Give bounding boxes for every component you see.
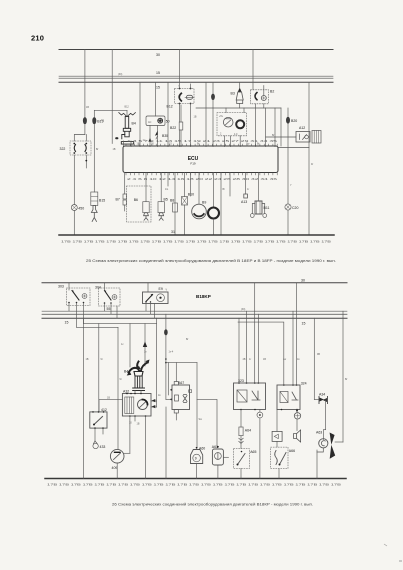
ignition switch 304 (dashed) [99,288,121,306]
svg-text:1B: 1B [86,358,89,361]
diode box [276,410,278,432]
svg-text:1B: 1B [137,423,140,426]
svg-text:B12: B12 [167,105,173,109]
svg-text:412: 412 [101,408,107,412]
wire B4 to A32 [134,391,136,394]
control unit A67 [172,385,190,410]
svg-text:C20: C20 [292,206,298,210]
wires gauges [224,136,226,147]
svg-text:A12: A12 [299,126,305,130]
svg-text:15: 15 [65,321,69,325]
wire 412 top to module A32 [99,399,122,401]
starter switch E9 [143,292,169,304]
connector A13 [245,173,247,195]
connector (hatched) at A12 [312,131,321,144]
svg-text:1v-4: 1v-4 [169,351,174,354]
svg-text:(30): (30) [241,308,245,311]
svg-text:9r: 9r [311,163,313,166]
wire to A67 top [175,363,177,382]
ECU pin ticks top [126,144,277,175]
svg-text:A13: A13 [241,200,247,204]
svg-text:322: 322 [60,147,66,151]
relay box 324 [277,385,300,410]
svg-text:A32: A32 [123,389,129,393]
svg-text:1r: 1r [249,358,251,361]
svg-text:A64: A64 [245,429,251,433]
svg-text:1 3 5 7 9 11 13 15 17 19 21 23: 1 3 5 7 9 11 13 15 17 19 21 23 25 27 29 … [127,140,279,143]
connector 450 [71,205,77,211]
svg-text:15: 15 [302,322,306,326]
svg-text:A61: A61 [212,445,218,449]
lambda sensor B9 [198,173,200,205]
relay box 323 [234,383,266,410]
svg-text:B20: B20 [291,119,297,123]
svg-text:26 Схема электрических соедине: 26 Схема электрических соединений электр… [112,503,313,507]
AC switch unit 50 [146,116,165,126]
wire B12 outputs to ECU [179,104,181,123]
svg-text:1B: 1B [107,397,110,400]
svg-text:B4: B4 [132,122,136,126]
wire stubs coil B4 to ECU [123,141,125,147]
svg-text:B35: B35 [162,134,168,138]
sensor 331 [296,410,298,413]
svg-text:1B: 1B [263,358,266,361]
connector C20 [285,204,291,210]
svg-text:1r: 1r [247,188,249,191]
sensor B10 [184,173,186,197]
wire 412 to lamp 433 [94,428,96,441]
svg-text:210: 210 [31,34,44,43]
svg-text:Br: Br [96,148,99,151]
svg-text:B18KP: B18KP [196,294,211,299]
svg-text:A60: A60 [199,446,205,450]
dashed enclosure around B6 [127,186,152,222]
wire to ignition switch 412 [98,324,100,412]
wire from bus30 [111,50,113,144]
svg-text:A34: A34 [319,392,325,396]
gauge 409 [110,449,124,463]
wire to gauge 409 [117,327,119,449]
bus 15 double line [59,75,333,77]
fuse B20 [287,108,289,117]
sensor B8 [174,173,176,204]
ground bus [45,478,346,480]
wire harness left horizontals [84,323,157,325]
svg-text:17B 17B 17B 17B 17B 17B 17B 17: 17B 17B 17B 17B 17B 17B 17B 17B 17B 17B … [47,484,342,487]
wire 322 to connector 450 [73,155,75,204]
svg-text:9r: 9r [120,378,122,381]
svg-text:4B: 4B [243,358,246,361]
wire B19 branch [93,110,95,117]
stray scan marks [384,544,387,546]
svg-text:450: 450 [78,207,84,211]
wire feed jog into 322 [74,135,86,142]
svg-text:B4: B4 [124,370,128,374]
svg-text:B12: B12 [125,106,130,109]
svg-text:324: 324 [301,382,307,386]
wire ECU to A12 [278,147,309,149]
svg-text:30: 30 [301,279,305,283]
wire E9 feeds [147,283,149,292]
instrument cluster dashed box [217,113,247,136]
relay B2 (dashed box) [251,90,269,104]
switch box 322 (dashed) [70,141,91,155]
svg-text:B5: B5 [164,198,168,202]
wire A67 bottom stub [175,413,177,420]
svg-text:B11: B11 [264,206,270,210]
sensor B7 [124,173,126,195]
svg-text:Br: Br [272,134,275,137]
svg-text:9r: 9r [101,358,103,361]
svg-text:B10: B10 [188,193,194,197]
svg-text:303: 303 [58,285,64,289]
svg-text:AC: AC [148,121,152,124]
svg-text:Sw: Sw [199,418,203,421]
fuse B1 [212,82,214,93]
svg-text:31: 31 [171,230,175,234]
wire 324 feeds [238,322,284,385]
injector B15 [91,192,98,206]
svg-text:30: 30 [156,53,160,57]
switch A66 (dashed) [271,447,288,469]
resistor A64 [240,410,242,428]
svg-text:25 Схема электрических соедине: 25 Схема электрических соединений электр… [86,259,336,263]
ECU U1 [123,146,278,173]
horn A60 [196,447,198,449]
wire left rail from bus30 [84,50,86,118]
svg-text:1B: 1B [194,116,197,119]
wire 322 stub [85,155,87,168]
svg-text:15: 15 [156,86,160,90]
resistor B22 [180,105,182,122]
wire bus30 to B12 [179,50,181,89]
svg-text:B9: B9 [202,201,206,205]
svg-text:F19: F19 [190,161,196,165]
wire horizontal feed [94,109,127,111]
wire long rail right [308,82,310,235]
idle valve B11 [258,173,260,202]
svg-text:A63: A63 [316,431,322,435]
ECU pin ticks bottom [126,173,277,176]
wire 323 feeds [238,318,240,383]
svg-text:17B 17B 17B 17B 17B 17B 17B 17: 17B 17B 17B 17B 17B 17B 17B 17B 17B 17B … [61,241,332,244]
svg-text:B3: B3 [231,92,235,96]
svg-text:50: 50 [166,120,170,124]
gauge right (dark ring) [236,120,244,128]
sensor (dark ring) [213,173,215,208]
bus 30 (top supply rail) [59,49,333,51]
wire B19 to injector B15 [93,125,95,193]
wire ECU ground runs [167,173,169,187]
wires bus to ECU pins [139,82,141,146]
svg-text:A67: A67 [178,381,184,385]
lamp 433 [93,441,97,444]
svg-text:E9: E9 [159,287,163,291]
ignition switch 303 (dashed) [67,288,91,306]
fuse F (left) [83,117,87,124]
wire unit 50 outputs [149,126,151,147]
svg-text:Br: Br [223,188,226,191]
connector under 323 [259,410,261,413]
wire long rail [83,318,85,478]
svg-text:1B: 1B [113,148,116,151]
arrow B35 [155,131,158,136]
wire with fuse to A67 [165,314,167,329]
gauge left [223,117,233,127]
svg-text:B2: B2 [270,90,274,94]
wire B20 down to C20 [287,124,289,204]
injector B5 [160,173,162,202]
wire feed to unit 50 [155,82,157,116]
svg-text:(30): (30) [118,73,122,76]
svg-text:A66: A66 [289,449,295,453]
sensor A61 [217,446,219,448]
wire relay outputs [255,104,257,147]
wire 303 feeds [68,283,70,290]
relay B12 (dashed box) [175,89,195,104]
svg-text:1G: 1G [165,188,168,191]
svg-text:55: 55 [107,307,111,311]
ignition coil B4 (bottom) [129,362,148,373]
svg-text:15: 15 [156,71,160,75]
svg-text:B15: B15 [99,199,105,203]
svg-text:B7: B7 [116,198,120,202]
wire to coil B4 [129,324,131,367]
svg-text:304: 304 [95,286,101,290]
ground bus 31 [59,234,334,236]
fuse B19 [92,117,96,124]
wire fuse to switch box 322 [84,125,86,135]
svg-text:2 4 6 8 10 12 14 16 18 20 22 2: 2 4 6 8 10 12 14 16 18 20 22 24 26 28 30… [127,178,279,181]
svg-text:409: 409 [112,466,118,470]
svg-text:B6: B6 [134,198,138,202]
switch A65 (dashed) [234,449,250,469]
bus 15 lower line [59,81,333,83]
wire horizontal distribution [196,107,281,109]
svg-text:1B: 1B [86,106,89,109]
wire 304 feeds [104,283,106,290]
solenoid valve B3 [238,88,242,93]
svg-text:Br: Br [345,378,348,381]
svg-text:Br: Br [186,338,189,341]
ignition switch 412 [90,412,107,428]
svg-text:B22: B22 [170,126,176,130]
svg-text:9: 9 [195,457,197,461]
bus 15 triple [42,310,347,312]
wire fuse B1 branch to ECU [212,108,214,147]
wire to A32 arrows [156,318,158,407]
svg-text:433: 433 [100,445,106,449]
wire A32 bottom pins [129,416,131,453]
wire bus30 to relays [252,50,254,90]
svg-text:9B: 9B [317,353,320,356]
wire to horn A60 [196,363,198,448]
bus 30 [42,282,347,284]
buzzer [294,430,301,442]
injector B6 [145,173,147,202]
ignition coil B4 [119,113,136,117]
ignition module A32 [122,394,151,417]
svg-text:A65: A65 [250,450,256,454]
svg-text:B8: B8 [170,199,174,203]
